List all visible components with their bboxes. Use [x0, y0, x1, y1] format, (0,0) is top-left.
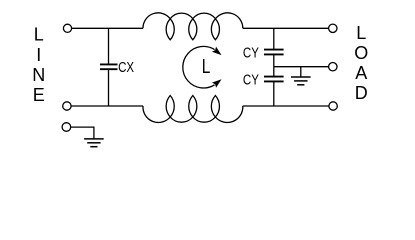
- svg-text:N: N: [32, 65, 45, 85]
- wire bottom-left: [71, 105, 143, 107]
- svg-text:I: I: [36, 45, 41, 65]
- choke bottom winding: [143, 96, 243, 123]
- wire ground stem: [300, 67, 302, 77]
- svg-text:L: L: [356, 23, 366, 43]
- capacitor CX: [100, 28, 118, 106]
- wire middle: [274, 66, 329, 68]
- ground chassis: [84, 138, 104, 140]
- capacitor CY1: [264, 28, 284, 66]
- svg-text:CY: CY: [243, 45, 259, 62]
- wire chassis: [71, 127, 94, 139]
- core symbol arc: [183, 46, 215, 88]
- capacitor CY2: [264, 67, 284, 106]
- svg-text:E: E: [33, 85, 45, 105]
- wire bottom-right: [243, 105, 329, 107]
- label LINE: [32, 25, 45, 106]
- core arrow bottom: [212, 79, 222, 88]
- svg-text:D: D: [355, 83, 368, 103]
- core arrow top: [212, 47, 222, 56]
- svg-text:A: A: [355, 63, 367, 83]
- choke top winding: [143, 13, 243, 40]
- terminal line top: [63, 24, 71, 32]
- svg-text:L: L: [202, 56, 211, 78]
- terminal line bottom: [63, 102, 71, 110]
- wire top-left: [72, 27, 143, 29]
- svg-text:L: L: [34, 25, 44, 45]
- terminal load bottom: [329, 102, 337, 110]
- svg-text:O: O: [354, 43, 368, 63]
- svg-text:CY: CY: [243, 72, 259, 89]
- svg-text:CX: CX: [118, 59, 134, 76]
- label LOAD: [354, 23, 368, 103]
- ground CY midpoint: [291, 76, 311, 78]
- terminal load top: [329, 24, 337, 32]
- terminal chassis: [62, 123, 71, 132]
- wire top-right: [243, 27, 329, 29]
- terminal load mid: [329, 62, 337, 70]
